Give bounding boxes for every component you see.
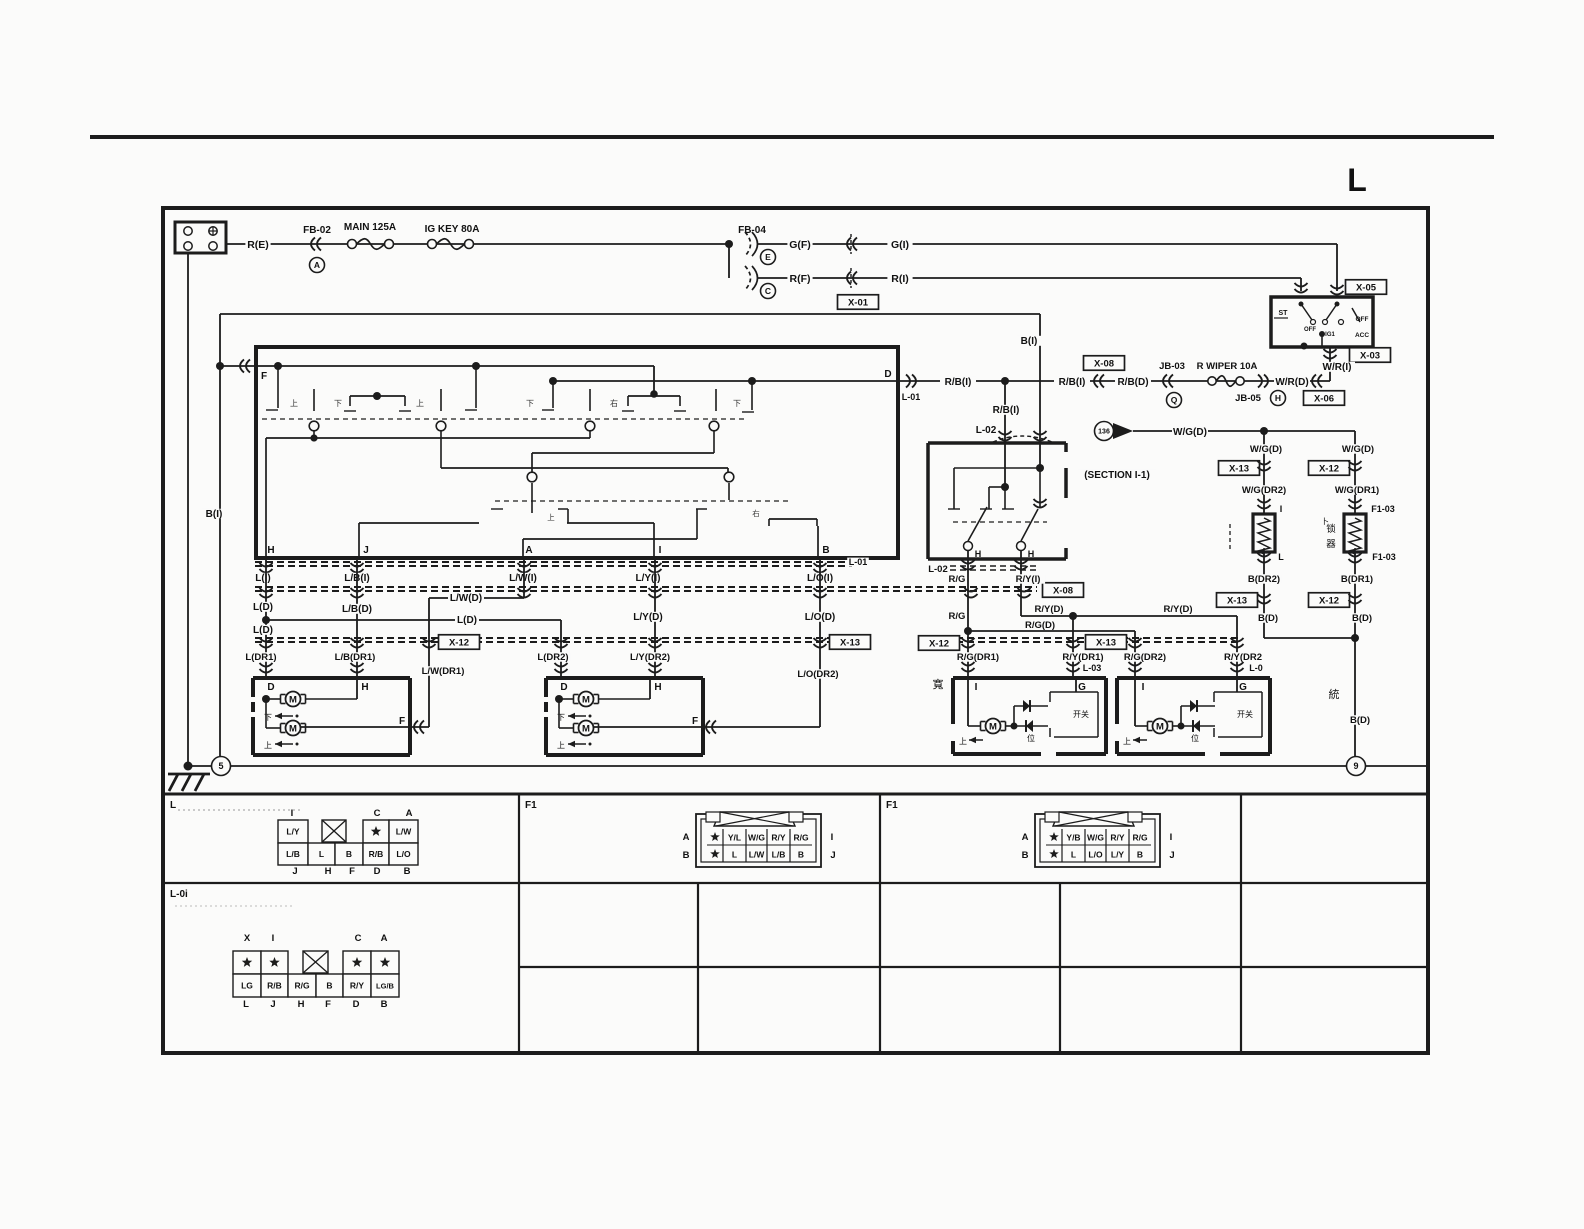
svg-text:J: J [1169,850,1174,861]
svg-text:上: 上 [290,399,298,408]
svg-text:R/G: R/G [294,981,310,991]
svg-text:R/G(D): R/G(D) [1025,620,1055,631]
svg-text:F: F [349,866,355,877]
svg-text:L(DR1): L(DR1) [245,652,276,663]
svg-text:R/B: R/B [369,849,384,859]
svg-text:L/B(DR1): L/B(DR1) [335,652,376,663]
svg-text:L/W(DR1): L/W(DR1) [422,666,465,677]
svg-text:H: H [1028,549,1035,559]
svg-text:L/Y(D): L/Y(D) [633,612,662,623]
svg-text:器: 器 [1326,539,1336,550]
svg-text:I: I [975,682,978,693]
svg-text:下: 下 [334,399,342,408]
svg-text:上: 上 [557,741,565,750]
svg-text:M: M [582,724,590,735]
svg-text:B: B [404,866,411,877]
svg-text:下: 下 [733,399,741,408]
svg-text:R/Y(DR2: R/Y(DR2 [1224,652,1262,663]
svg-text:Q: Q [1171,395,1178,405]
svg-text:寬: 寬 [933,677,944,691]
svg-text:开关: 开关 [1237,709,1253,719]
svg-text:X-01: X-01 [848,297,869,308]
svg-text:A: A [406,808,413,819]
svg-text:C: C [374,808,381,819]
svg-text:R/B(I): R/B(I) [1059,377,1086,388]
svg-text:L-02: L-02 [928,564,948,575]
svg-text:L/O(D): L/O(D) [805,612,836,623]
svg-text:W/G(D): W/G(D) [1173,427,1207,438]
svg-text:C: C [765,286,771,296]
svg-text:上: 上 [547,513,555,522]
svg-text:H: H [325,866,332,877]
svg-text:L(D): L(D) [457,615,477,626]
svg-text:F: F [325,999,331,1010]
svg-text:L/W: L/W [749,850,766,860]
svg-text:B: B [1137,850,1143,860]
svg-text:B(I): B(I) [1021,336,1038,347]
svg-text:L: L [319,849,324,859]
svg-text:上: 上 [1123,737,1131,746]
svg-text:F1: F1 [525,800,537,811]
svg-text:M: M [582,695,590,706]
svg-text:B(DR2): B(DR2) [1248,574,1280,585]
svg-text:W/G(DR1): W/G(DR1) [1335,485,1379,496]
svg-text:W/G(DR2): W/G(DR2) [1242,485,1286,496]
svg-text:L: L [1347,162,1367,198]
svg-text:D: D [353,999,360,1010]
svg-text:G(I): G(I) [891,239,909,251]
svg-text:L: L [243,999,249,1010]
svg-text:R/Y(D): R/Y(D) [1163,604,1192,615]
svg-text:B: B [683,850,690,861]
svg-text:M: M [289,695,297,706]
svg-text:R/Y(I): R/Y(I) [1016,574,1041,585]
svg-text:L(I): L(I) [255,573,271,584]
svg-text:L-03: L-03 [1083,663,1102,673]
svg-text:R/B(D): R/B(D) [1117,377,1148,388]
svg-text:B(D): B(D) [1350,715,1370,726]
svg-text:上: 上 [416,399,424,408]
svg-text:FB-02: FB-02 [303,225,331,236]
svg-text:D: D [374,866,381,877]
svg-text:F1-03: F1-03 [1371,504,1395,514]
svg-text:F: F [261,371,267,382]
svg-text:I: I [1142,682,1145,693]
svg-text:L/O: L/O [396,849,411,859]
svg-text:R/Y: R/Y [350,981,365,991]
svg-text:L: L [170,800,176,811]
svg-text:L/B: L/B [772,850,786,860]
svg-text:B: B [1022,850,1029,861]
svg-text:L/B: L/B [286,849,300,859]
svg-text:M: M [1156,722,1164,733]
svg-text:X-08: X-08 [1094,358,1114,369]
svg-text:X-13: X-13 [840,637,860,648]
svg-text:J: J [363,545,369,556]
svg-text:X-12: X-12 [929,638,949,649]
svg-text:L-01: L-01 [902,392,921,402]
svg-text:H: H [361,682,368,693]
svg-text:X: X [244,933,251,944]
svg-text:A: A [683,832,690,843]
svg-text:W/R(I): W/R(I) [1323,362,1352,373]
svg-text:X-06: X-06 [1314,393,1334,404]
svg-text:IG KEY 80A: IG KEY 80A [425,224,480,235]
svg-text:I: I [1280,504,1283,514]
svg-text:X-12: X-12 [449,637,469,648]
svg-text:M: M [989,722,997,733]
svg-text:W/G: W/G [748,833,765,843]
svg-text:L/Y(I): L/Y(I) [636,573,661,584]
svg-text:位: 位 [1027,733,1035,743]
svg-text:R/B(I): R/B(I) [993,405,1020,416]
svg-text:JB-03: JB-03 [1159,361,1185,372]
svg-text:L/O: L/O [1088,850,1103,860]
svg-text:9: 9 [1353,761,1358,771]
svg-text:D: D [267,682,274,693]
svg-text:L: L [1071,850,1076,860]
svg-text:I: I [272,933,275,944]
svg-text:L-02: L-02 [976,425,997,436]
svg-text:A: A [525,545,532,556]
svg-text:B: B [346,849,352,859]
svg-text:J: J [270,999,275,1010]
svg-text:C: C [355,933,362,944]
svg-text:上: 上 [264,741,272,750]
svg-text:W/R(D): W/R(D) [1275,377,1308,388]
svg-text:A: A [1022,832,1029,843]
svg-text:Y/L: Y/L [728,833,741,843]
svg-text:B: B [381,999,388,1010]
svg-text:R/G(DR2): R/G(DR2) [1124,652,1166,663]
svg-text:L-0: L-0 [1249,663,1263,673]
svg-text:B(DR1): B(DR1) [1341,574,1373,585]
svg-text:R/Y(D): R/Y(D) [1034,604,1063,615]
svg-text:IG1: IG1 [1325,332,1335,338]
svg-text:R/G: R/G [949,574,966,585]
svg-text:L: L [1278,552,1284,562]
svg-text:A: A [381,933,388,944]
svg-text:L(DR2): L(DR2) [537,652,568,663]
svg-text:W/G(D): W/G(D) [1342,444,1374,455]
svg-text:A: A [314,260,320,270]
svg-text:MAIN 125A: MAIN 125A [344,222,396,233]
svg-text:F1-03: F1-03 [1372,552,1396,562]
svg-text:I: I [1170,832,1173,843]
svg-text:R/Y: R/Y [1110,833,1125,843]
svg-text:E: E [765,252,771,262]
svg-text:X-13: X-13 [1096,637,1116,648]
svg-text:ST: ST [1279,310,1289,317]
svg-text:JB-05: JB-05 [1235,393,1262,404]
svg-text:L(D): L(D) [253,602,273,613]
svg-text:R/Y(DR1): R/Y(DR1) [1062,652,1103,663]
svg-text:136: 136 [1098,429,1110,436]
svg-text:D: D [560,682,567,693]
svg-text:开关: 开关 [1073,709,1089,719]
svg-text:LG: LG [241,981,253,991]
svg-text:J: J [292,866,297,877]
svg-text:R/G: R/G [793,833,809,843]
svg-text:M: M [289,724,297,735]
svg-text:H: H [654,682,661,693]
svg-text:Y/B: Y/B [1066,833,1080,843]
svg-text:位: 位 [1191,733,1199,743]
svg-text:下: 下 [526,399,534,408]
svg-text:R(I): R(I) [891,273,909,285]
svg-text:J: J [830,850,835,861]
svg-text:OFF: OFF [1356,316,1369,323]
svg-text:X-03: X-03 [1360,350,1380,361]
svg-text:R/G: R/G [1132,833,1148,843]
svg-text:L/W(D): L/W(D) [450,593,482,604]
svg-text:LG/B: LG/B [376,982,394,991]
svg-text:D: D [884,369,891,380]
svg-text:L/Y: L/Y [286,827,300,837]
svg-text:W/G: W/G [1087,833,1104,843]
svg-text:右: 右 [610,398,618,408]
svg-text:B: B [326,981,332,991]
svg-text:R/Y: R/Y [771,833,786,843]
svg-text:R(E): R(E) [247,239,269,251]
svg-text:ACC: ACC [1355,332,1369,339]
svg-text:L/Y(DR2): L/Y(DR2) [630,652,670,663]
svg-text:R(F): R(F) [790,273,811,285]
svg-text:B(I): B(I) [206,509,223,520]
svg-text:X-13: X-13 [1227,595,1247,606]
svg-text:R WIPER 10A: R WIPER 10A [1197,361,1258,372]
svg-text:R/G: R/G [949,611,966,622]
svg-text:X-05: X-05 [1356,282,1377,293]
svg-text:B: B [822,545,829,556]
svg-text:F: F [692,716,698,727]
svg-text:L/B(D): L/B(D) [342,604,372,615]
svg-text:統: 統 [1329,687,1340,701]
svg-text:I: I [291,808,294,819]
svg-text:L-01: L-01 [849,557,868,567]
svg-text:上: 上 [959,737,967,746]
svg-text:H: H [267,545,274,556]
svg-text:F1: F1 [886,800,898,811]
svg-text:X-12: X-12 [1319,595,1339,606]
svg-text:H: H [1275,393,1281,403]
svg-text:H: H [975,549,982,559]
svg-text:右: 右 [752,508,760,518]
svg-text:卜: 卜 [1321,517,1329,526]
svg-text:L/W: L/W [396,827,413,837]
svg-text:FB-04: FB-04 [738,225,766,236]
svg-text:L/W(I): L/W(I) [509,573,537,584]
svg-text:I: I [659,545,662,556]
svg-text:B: B [798,850,804,860]
svg-text:X-12: X-12 [1319,463,1339,474]
svg-text:L(D): L(D) [253,625,273,636]
svg-text:L/O(DR2): L/O(DR2) [797,669,838,680]
svg-text:W/G(D): W/G(D) [1250,444,1282,455]
svg-text:H: H [298,999,305,1010]
svg-text:B(D): B(D) [1352,613,1372,624]
svg-text:G(F): G(F) [789,239,811,251]
svg-text:X-13: X-13 [1229,463,1249,474]
svg-text:B(D): B(D) [1258,613,1278,624]
svg-text:L: L [732,850,737,860]
svg-text:X-08: X-08 [1053,585,1073,596]
svg-text:R/G(DR1): R/G(DR1) [957,652,999,663]
svg-text:R/B: R/B [267,981,282,991]
svg-text:F: F [399,716,405,727]
svg-text:L-0i: L-0i [170,889,188,900]
svg-text:OFF: OFF [1304,327,1316,333]
svg-text:5: 5 [218,761,223,771]
svg-text:(SECTION I-1): (SECTION I-1) [1084,470,1150,481]
svg-text:R/B(I): R/B(I) [945,377,972,388]
svg-text:L/Y: L/Y [1111,850,1125,860]
svg-text:I: I [831,832,834,843]
